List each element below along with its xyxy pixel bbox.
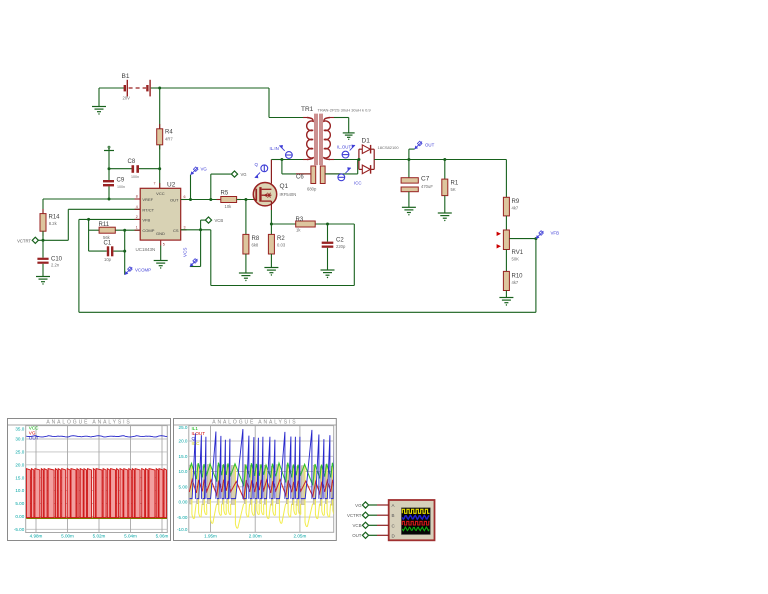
wire <box>271 223 295 225</box>
svg-text:R4: R4 <box>165 130 173 136</box>
y axis labels <box>14 427 25 532</box>
terminal VG <box>231 171 237 177</box>
junction <box>443 158 446 161</box>
svg-text:VREF: VREF <box>142 197 153 202</box>
svg-text:7: 7 <box>154 182 156 186</box>
svg-text:C7: C7 <box>421 176 430 183</box>
svg-text:C10: C10 <box>51 256 63 262</box>
svg-text:UC1843N: UC1843N <box>136 247 156 252</box>
svg-text:100n: 100n <box>117 185 125 189</box>
svg-text:R1: R1 <box>451 181 459 187</box>
wire <box>201 219 206 221</box>
svg-text:2: 2 <box>136 215 138 219</box>
wire <box>505 160 507 198</box>
transformer TR1 <box>303 114 334 166</box>
svg-text:15.0: 15.0 <box>179 454 188 459</box>
ground <box>154 246 168 269</box>
junction <box>158 167 161 170</box>
svg-text:0.03: 0.03 <box>277 243 286 248</box>
junction <box>357 158 360 161</box>
wire <box>281 160 283 174</box>
wire <box>237 199 254 201</box>
chart graph2 ANALOGUE ANALYSIS <box>174 419 354 541</box>
ground <box>239 273 253 281</box>
y axis labels <box>177 425 188 532</box>
resistor R10 <box>503 250 509 298</box>
svg-text:R11: R11 <box>99 222 110 228</box>
trace IL.OUT green secondary current <box>189 463 353 486</box>
svg-text:CS: CS <box>173 228 179 233</box>
svg-text:3: 3 <box>184 225 186 229</box>
battery B1 <box>124 80 151 97</box>
svg-text:1k: 1k <box>296 228 301 233</box>
wire <box>268 88 270 118</box>
capacitor C9 <box>103 180 114 199</box>
svg-text:25.0: 25.0 <box>15 450 24 455</box>
trace IL.IN blue primary current <box>190 429 353 499</box>
ground <box>499 298 513 306</box>
svg-text:5.00m: 5.00m <box>61 533 74 538</box>
terminal VCTRT scope input <box>347 512 389 518</box>
svg-text:10.0: 10.0 <box>15 488 24 493</box>
scope pin labels A B C D <box>392 503 396 538</box>
ground <box>402 207 416 215</box>
svg-text:GND: GND <box>156 231 165 236</box>
svg-text:TR1: TR1 <box>301 106 314 113</box>
svg-text:TRAN-2P2S 30uH 30uH k 0.9: TRAN-2P2S 30uH 30uH k 0.9 <box>318 108 372 113</box>
svg-text:4k7: 4k7 <box>512 206 519 211</box>
chart graph1 ANALOGUE ANALYSIS <box>8 419 171 541</box>
svg-text:4k7: 4k7 <box>512 280 519 285</box>
junction <box>407 158 410 161</box>
current probe IL.OUT <box>337 145 355 159</box>
wire <box>124 251 126 275</box>
svg-text:4R7: 4R7 <box>165 137 173 142</box>
svg-text:OUT: OUT <box>170 198 179 203</box>
wire <box>88 219 90 251</box>
wire <box>282 159 303 161</box>
ground <box>36 277 50 285</box>
svg-text:ICC: ICC <box>354 181 362 186</box>
svg-text:R5: R5 <box>221 190 229 196</box>
svg-text:1.95m: 1.95m <box>204 533 217 538</box>
ground <box>264 268 278 276</box>
wire <box>374 159 506 161</box>
svg-text:RV1: RV1 <box>512 250 524 256</box>
svg-text:OUT: OUT <box>352 533 362 538</box>
svg-text:4.98m: 4.98m <box>30 533 43 538</box>
wire <box>67 209 69 240</box>
wire <box>271 159 282 161</box>
wire <box>181 199 221 201</box>
scope trace green channel D <box>402 527 429 531</box>
svg-text:18CS82100: 18CS82100 <box>378 145 400 150</box>
resistor R8 <box>243 234 249 254</box>
terminal VCB scope input <box>352 522 388 528</box>
svg-text:56k: 56k <box>103 235 111 240</box>
wire <box>108 151 110 181</box>
junction <box>244 198 247 201</box>
svg-text:5.00: 5.00 <box>179 484 188 489</box>
probe OUT <box>409 141 435 159</box>
capacitor C10 <box>37 258 48 277</box>
svg-text:B1: B1 <box>122 73 130 80</box>
svg-text:A: A <box>392 503 395 508</box>
trace VCC green baseline <box>26 517 167 519</box>
svg-text:IL.OUT: IL.OUT <box>337 145 351 150</box>
svg-text:15.0: 15.0 <box>15 475 24 480</box>
svg-text:COMP: COMP <box>142 228 154 233</box>
svg-text:50K: 50K <box>512 257 520 262</box>
junction <box>270 223 273 226</box>
svg-text:R2: R2 <box>277 236 285 242</box>
wire <box>43 198 140 200</box>
svg-text:5.02m: 5.02m <box>93 533 106 538</box>
svg-text:10.0: 10.0 <box>179 469 188 474</box>
svg-text:IRF540N: IRF540N <box>280 192 297 197</box>
wire <box>357 160 359 174</box>
resistor R1 <box>442 160 448 214</box>
resistor R14 <box>40 209 46 236</box>
current probe ICC <box>338 167 362 185</box>
svg-text:R9: R9 <box>512 199 520 205</box>
wire <box>159 145 161 189</box>
svg-text:VCB: VCB <box>215 218 224 223</box>
power symbol <box>104 146 114 150</box>
wire VFB net <box>79 219 536 312</box>
capacitor C6 <box>296 166 341 184</box>
svg-text:ANALOGUE ANALYSIS: ANALOGUE ANALYSIS <box>46 420 131 426</box>
wire <box>269 117 303 119</box>
wire <box>353 224 355 286</box>
scope trace blue channel B <box>402 515 429 519</box>
wire <box>200 220 202 230</box>
probe VG <box>191 167 208 175</box>
svg-text:R10: R10 <box>512 274 524 280</box>
resistor R4 <box>157 124 163 150</box>
svg-text:6: 6 <box>184 195 186 199</box>
junction <box>87 218 90 221</box>
svg-text:U2: U2 <box>167 182 176 189</box>
svg-text:25.0: 25.0 <box>179 425 188 430</box>
gridlines <box>189 426 334 533</box>
probe VFB <box>536 231 559 239</box>
probe VCS <box>183 248 198 267</box>
svg-text:C2: C2 <box>336 238 344 244</box>
svg-text:C1: C1 <box>104 241 112 247</box>
wire <box>190 175 192 200</box>
junction <box>209 198 212 201</box>
svg-text:VCC: VCC <box>156 191 165 196</box>
junction <box>42 239 45 242</box>
svg-text:5.04m: 5.04m <box>124 533 137 538</box>
trace red load current <box>189 480 353 499</box>
op-amp U2 UC1843N PWM controller <box>135 183 187 246</box>
svg-text:20V: 20V <box>123 96 131 101</box>
resistor R9 <box>503 197 509 216</box>
terminal OUT scope input <box>352 532 388 538</box>
resistor R5 <box>217 197 242 203</box>
wire <box>211 173 231 175</box>
svg-text:470uF: 470uF <box>421 184 433 189</box>
wire <box>200 230 202 267</box>
legend IL.IN IL.OUT Q ICC <box>192 426 206 446</box>
svg-text:20.0: 20.0 <box>15 462 24 467</box>
gridlines <box>26 426 168 533</box>
svg-text:R8: R8 <box>252 236 260 242</box>
wire <box>334 117 349 119</box>
svg-text:8: 8 <box>136 195 138 199</box>
diode D1 <box>359 145 374 174</box>
svg-text:2.2n: 2.2n <box>51 263 60 268</box>
probe Q current probe on drain <box>255 162 268 178</box>
svg-text:10k: 10k <box>225 204 233 209</box>
svg-text:220p: 220p <box>336 244 346 249</box>
wire <box>124 230 126 251</box>
wire <box>181 229 201 231</box>
svg-text:VG: VG <box>241 172 247 177</box>
wire <box>99 87 124 89</box>
wire <box>210 230 212 286</box>
wire <box>315 223 354 225</box>
svg-text:C6: C6 <box>296 175 304 181</box>
wire <box>282 173 311 175</box>
terminal VCTRT <box>32 237 43 243</box>
svg-text:35.0: 35.0 <box>15 427 24 432</box>
ground <box>438 213 452 221</box>
svg-text:5K: 5K <box>451 187 456 192</box>
wire <box>211 285 354 287</box>
wire <box>334 159 359 161</box>
svg-text:-10.0: -10.0 <box>177 527 188 532</box>
oscilloscope component <box>389 500 435 540</box>
svg-text:VCB: VCB <box>352 523 361 528</box>
svg-text:4: 4 <box>136 205 138 209</box>
wire <box>201 229 211 231</box>
scope trace red channel C <box>402 521 429 525</box>
ground <box>321 270 335 278</box>
svg-text:VG: VG <box>201 167 208 172</box>
svg-text:100n: 100n <box>131 175 139 179</box>
junction <box>280 158 283 161</box>
svg-text:-5.00: -5.00 <box>177 515 188 520</box>
terminal VG scope input <box>355 502 389 508</box>
potentiometer RV1 <box>497 230 536 250</box>
graph frame <box>8 419 171 541</box>
svg-text:5.00: 5.00 <box>15 501 24 506</box>
trace OUT blue output voltage <box>26 436 167 437</box>
svg-text:VG: VG <box>355 503 362 508</box>
resistor R2 <box>268 234 274 267</box>
svg-text:6k8: 6k8 <box>252 243 259 248</box>
svg-text:20.0: 20.0 <box>179 439 188 444</box>
svg-text:30.0: 30.0 <box>15 437 24 442</box>
resistor R3 <box>296 221 316 227</box>
wire <box>210 174 212 199</box>
capacitor C1 <box>89 246 125 256</box>
svg-text:VFB: VFB <box>551 231 560 236</box>
svg-text:8.2k: 8.2k <box>49 221 58 226</box>
wire <box>270 210 272 234</box>
svg-text:VFB: VFB <box>142 218 150 223</box>
trace VG red PWM pulses <box>26 469 166 518</box>
wire <box>190 266 201 268</box>
ground <box>343 133 355 140</box>
plot area <box>189 426 334 533</box>
svg-text:VCTRT: VCTRT <box>347 513 362 518</box>
junction <box>326 223 329 226</box>
trace ICC yellow capacitor current <box>192 465 354 529</box>
wire <box>160 87 269 89</box>
svg-text:VCOMP: VCOMP <box>135 268 151 273</box>
svg-text:OUT: OUT <box>425 143 435 148</box>
svg-text:R3: R3 <box>296 217 304 223</box>
terminal VCB <box>205 217 211 223</box>
wire <box>325 173 358 175</box>
resistor R11 <box>89 227 141 233</box>
svg-text:2.00m: 2.00m <box>249 533 262 538</box>
svg-text:Q: Q <box>255 162 259 167</box>
svg-text:C8: C8 <box>128 159 136 165</box>
wire <box>68 208 140 210</box>
svg-text:D1: D1 <box>362 138 371 145</box>
wire <box>245 200 247 235</box>
probe VCOMP <box>125 267 151 275</box>
svg-text:2.05m: 2.05m <box>294 533 307 538</box>
junction <box>189 198 192 201</box>
svg-text:B: B <box>392 513 395 518</box>
junction <box>158 87 161 90</box>
junction <box>123 250 126 253</box>
ground <box>92 88 106 115</box>
svg-text:1: 1 <box>136 226 138 230</box>
capacitor C8 <box>109 165 160 173</box>
svg-text:VCS: VCS <box>183 248 188 257</box>
junction <box>108 198 111 201</box>
khaki on-time columns <box>190 465 352 506</box>
wire <box>43 239 68 241</box>
transistor Q1 IRF540N <box>253 160 276 211</box>
svg-text:680p: 680p <box>307 186 317 191</box>
svg-text:Q1: Q1 <box>280 183 289 190</box>
svg-text:0.00: 0.00 <box>15 514 24 519</box>
svg-text:C9: C9 <box>117 178 125 184</box>
x axis labels <box>204 533 306 538</box>
current probe IL.IN <box>270 145 293 158</box>
svg-text:5.06m: 5.06m <box>156 533 169 538</box>
scope trace yellow channel A <box>402 509 429 513</box>
graph frame <box>174 419 337 541</box>
capacitor C7 <box>401 160 418 208</box>
wire <box>159 88 161 129</box>
x axis labels <box>30 533 169 538</box>
svg-text:-5.00: -5.00 <box>14 527 25 532</box>
wire <box>245 254 247 273</box>
svg-text:10p: 10p <box>104 257 112 262</box>
svg-text:0.00: 0.00 <box>179 500 188 505</box>
wire <box>42 231 44 258</box>
wire <box>348 118 350 133</box>
plot area <box>26 426 168 533</box>
legend VCC VG OUT <box>29 425 39 440</box>
svg-text:IL.IN: IL.IN <box>270 146 279 151</box>
wire <box>42 199 44 214</box>
capacitor C2 <box>322 224 334 270</box>
svg-text:VCTRT: VCTRT <box>17 238 31 243</box>
svg-text:R14: R14 <box>49 215 61 221</box>
wire <box>151 87 160 89</box>
junction <box>108 167 111 170</box>
junction <box>123 229 126 232</box>
junction <box>534 237 537 240</box>
svg-text:ANALOGUE ANALYSIS: ANALOGUE ANALYSIS <box>212 420 297 426</box>
junction <box>199 228 202 231</box>
wire <box>505 216 507 230</box>
svg-text:5: 5 <box>163 242 165 246</box>
svg-text:RT/CT: RT/CT <box>142 207 154 212</box>
